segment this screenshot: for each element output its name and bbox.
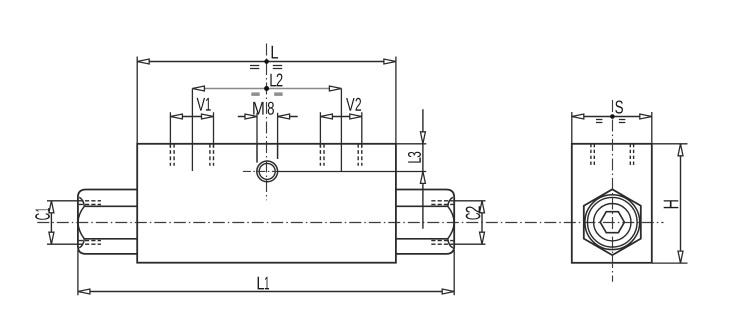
M8 hole horizontal centerline xyxy=(243,170,280,172)
label L3 xyxy=(408,152,421,163)
dimension L1 line xyxy=(78,250,454,295)
port V1 right dashed hole xyxy=(210,144,214,166)
port V1 left dashed hole xyxy=(170,144,174,166)
hex plug head circle xyxy=(588,197,638,247)
right fitting hex flat lines xyxy=(396,206,448,239)
label V2 xyxy=(346,98,361,111)
port depth line xyxy=(278,171,427,173)
label L1 xyxy=(258,277,269,290)
dimension V2 line xyxy=(320,112,361,148)
left fitting thread dashed lines xyxy=(79,201,101,244)
valve body rectangle xyxy=(137,144,396,263)
dimension M8 lines xyxy=(238,113,298,144)
port V2 left dashed hole xyxy=(320,144,324,166)
label H xyxy=(664,200,679,208)
side view rectangle xyxy=(572,144,652,263)
label 8 xyxy=(268,102,274,115)
dimension L line xyxy=(137,57,396,144)
dimension S line xyxy=(572,112,652,144)
vertical centerline M8 axis xyxy=(266,44,268,201)
side view vertical centerline xyxy=(612,100,614,282)
label L xyxy=(272,46,279,59)
hex plug outer hexagon xyxy=(584,189,641,255)
M8 hole inner circle xyxy=(259,163,275,179)
right fitting chamfer arcs xyxy=(448,197,454,248)
side view thread dashed hole left xyxy=(591,144,594,167)
hex plug inner circle xyxy=(594,204,631,241)
dimension C2 lines xyxy=(454,201,485,244)
dimension L3 lines xyxy=(396,109,426,229)
left hex fitting outline xyxy=(78,190,137,254)
right fitting thread dashed lines xyxy=(431,201,453,244)
label V1 xyxy=(197,98,211,111)
dimension C1 lines xyxy=(47,201,80,244)
dimension V1 line xyxy=(170,112,213,148)
dimension L2 line (highlighted grey) xyxy=(192,86,341,171)
M8 hole wall lines xyxy=(257,144,278,163)
main horizontal centerline xyxy=(37,222,663,224)
label M xyxy=(253,102,263,115)
hex socket xyxy=(600,212,624,233)
label C2 xyxy=(466,206,481,219)
right hex fitting outline xyxy=(396,190,454,254)
left fitting hex flat lines xyxy=(84,206,137,239)
label S xyxy=(615,101,623,114)
port V2 right dashed hole xyxy=(358,144,362,166)
label L2 xyxy=(270,74,282,87)
hex plug chamfer circle xyxy=(585,195,640,250)
left fitting chamfer arcs xyxy=(78,197,84,248)
side view thread dashed hole right xyxy=(630,144,633,167)
dimension H line xyxy=(652,144,688,263)
M8 hole outer circle xyxy=(257,161,278,182)
label C1 xyxy=(35,208,50,220)
